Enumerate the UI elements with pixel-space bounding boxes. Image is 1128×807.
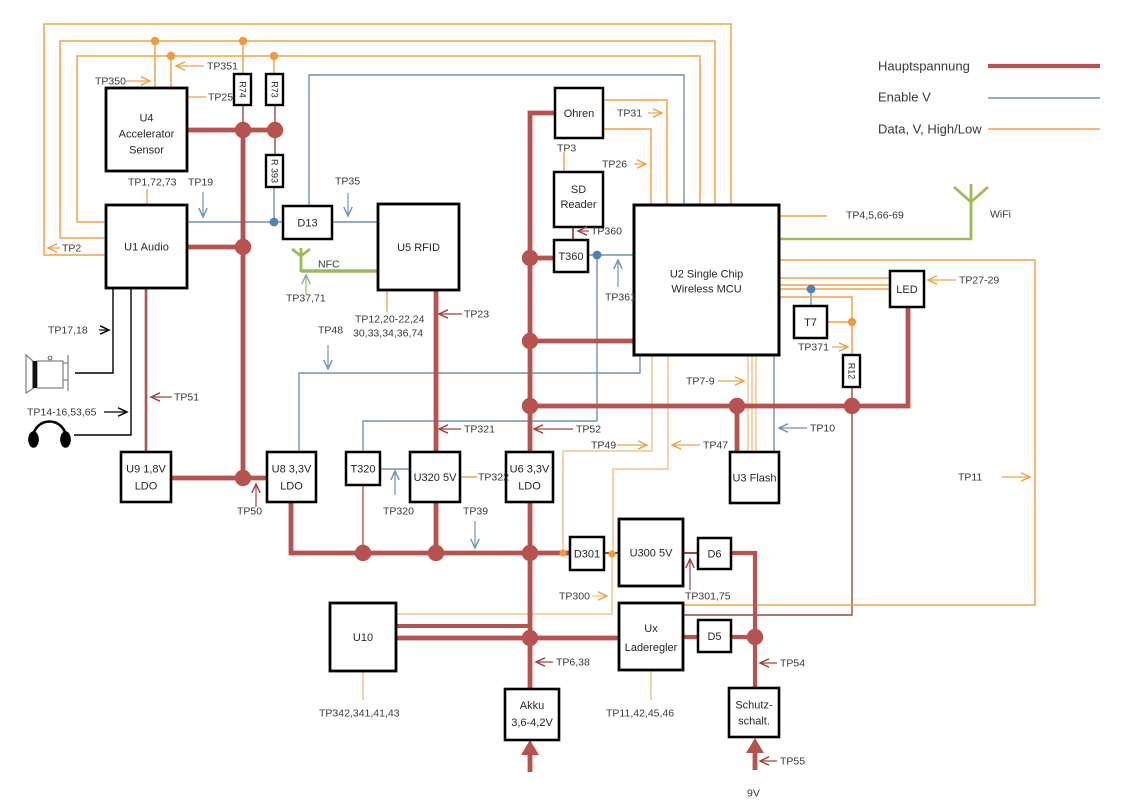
diode D6 <box>698 538 731 569</box>
svg-text:TP351: TP351 <box>207 61 238 73</box>
svg-text:U4: U4 <box>139 112 153 124</box>
svg-text:U5 RFID: U5 RFID <box>397 242 440 254</box>
svg-text:TP300: TP300 <box>559 591 590 603</box>
svg-text:Sensor: Sensor <box>129 144 164 156</box>
svg-text:TP321: TP321 <box>464 424 495 436</box>
svg-text:TP52: TP52 <box>576 424 601 436</box>
wire T360 power feed <box>530 256 554 261</box>
svg-text:TP3: TP3 <box>557 143 576 155</box>
regulator U320 5V <box>410 452 460 502</box>
IC U4 Accelerator Sensor <box>106 88 187 171</box>
svg-text:NFC: NFC <box>318 259 340 271</box>
svg-text:TP26: TP26 <box>602 159 627 171</box>
wire U5 bottom data stub <box>386 290 388 312</box>
svg-text:U2 Single Chip: U2 Single Chip <box>670 268 743 280</box>
wire Ohren to SD Reader TP3 stub <box>563 138 565 172</box>
wire U2 to U3 data 3 <box>755 355 757 452</box>
svg-text:30,33,34,36,74: 30,33,34,36,74 <box>353 328 423 340</box>
antenna NFC <box>292 248 310 272</box>
svg-text:U1 Audio: U1 Audio <box>124 241 169 253</box>
wire U2 to U3 data 2 <box>751 355 753 452</box>
svg-text:TP54: TP54 <box>780 658 805 670</box>
wire U2 to U3 data 1 (TP7-9) <box>747 355 749 452</box>
svg-text:TP342,341,41,43: TP342,341,41,43 <box>319 708 400 720</box>
wire D13 to U5 enable <box>332 221 378 223</box>
wire T320 to U320 enable <box>380 468 410 470</box>
svg-text:TP55: TP55 <box>780 756 805 768</box>
resistor R393 <box>266 155 283 187</box>
svg-text:Data, V, High/Low: Data, V, High/Low <box>878 122 982 137</box>
svg-text:TP47: TP47 <box>703 440 728 452</box>
diode D13 <box>283 206 332 239</box>
svg-text:TP360: TP360 <box>591 226 622 238</box>
svg-text:R74: R74 <box>237 81 247 98</box>
svg-text:TP371: TP371 <box>798 342 829 354</box>
svg-text:Akku: Akku <box>520 700 544 712</box>
wire U10 lower power line to Ux <box>396 636 619 641</box>
wire U10 to D301 node (TP300 net) <box>396 554 612 614</box>
wire TP1,72,73 stub to U1 top <box>146 189 148 205</box>
svg-text:D5: D5 <box>707 631 721 643</box>
svg-text:LDO: LDO <box>135 480 158 492</box>
wire D6 to D5 junction loop <box>731 553 755 637</box>
wire TP25 stub from U4 <box>187 96 206 98</box>
resistor R73 <box>266 74 283 105</box>
transistor T7 <box>794 306 827 338</box>
svg-text:TP320: TP320 <box>383 506 414 518</box>
wire U2 to LED data 2 <box>779 284 890 286</box>
svg-text:TP25: TP25 <box>208 92 233 104</box>
antenna WiFi <box>954 184 988 239</box>
svg-text:3,6-4,2V: 3,6-4,2V <box>511 717 553 729</box>
svg-text:T360: T360 <box>558 251 583 263</box>
wire R12 bottom to power dot <box>851 387 853 406</box>
wire U2 right TP4,5,66-69 stub <box>779 215 827 217</box>
wire orange loop B (TP351 net U1-U4-R74-U2) <box>60 41 715 238</box>
wire U2 to U8 enable <box>299 355 640 452</box>
svg-text:TP48: TP48 <box>318 325 343 337</box>
IC U10 <box>330 603 396 671</box>
wire U1 to D13 enable <box>187 221 283 223</box>
junction dots power (red) <box>235 122 251 138</box>
LED block <box>890 271 924 307</box>
svg-text:TP12,20-22,24: TP12,20-22,24 <box>355 314 425 326</box>
wire U2 bottom to D301 right (TP47 net) <box>613 355 668 554</box>
block SD Reader <box>554 172 603 227</box>
wire R393 bottom to enable node <box>273 187 275 222</box>
wire power dot to Ux Laderegler sense line <box>683 406 852 615</box>
svg-text:TP10: TP10 <box>810 423 835 435</box>
wire U4 power to junction (thick red) <box>187 128 278 133</box>
wire Ohren power feed and main vertical x530 <box>530 113 555 689</box>
svg-text:TP350: TP350 <box>95 76 126 88</box>
svg-text:U320 5V: U320 5V <box>414 472 457 484</box>
wire U9 to U8 power <box>171 476 267 481</box>
svg-text:TP50: TP50 <box>237 506 262 518</box>
svg-text:TP2: TP2 <box>62 243 81 255</box>
svg-text:LDO: LDO <box>280 480 303 492</box>
wire U9 feed from U1 (thin red) <box>145 288 148 452</box>
IC U5 RFID <box>378 204 459 290</box>
wire T360 node to T320 enable <box>363 255 597 452</box>
wire SD Reader to T360 (TP360 net) <box>572 227 574 240</box>
diode D5 <box>698 620 731 652</box>
junction dots enable (blue) <box>270 218 279 227</box>
svg-text:R12: R12 <box>846 363 856 380</box>
IC U3 Flash <box>730 452 779 503</box>
wire U1 power feed <box>187 245 243 250</box>
svg-text:SD: SD <box>571 184 586 196</box>
wire power vertical x243 U4-U1-U9 row <box>241 130 246 478</box>
svg-text:TP11: TP11 <box>958 472 982 484</box>
svg-text:Schutz-: Schutz- <box>735 699 773 711</box>
wire U3 Flash power feed <box>735 406 740 452</box>
regulator U8 3,3V LDO <box>267 452 316 502</box>
IC U2 Single Chip Wireless MCU <box>634 205 779 355</box>
svg-text:TP7-9: TP7-9 <box>686 376 715 388</box>
regulator U9 1,8V LDO <box>121 452 171 502</box>
svg-text:LED: LED <box>896 284 917 296</box>
wire U2 to LED data 1 <box>779 277 890 279</box>
svg-text:U8 3,3V: U8 3,3V <box>272 463 312 475</box>
headphones icon <box>28 422 71 448</box>
svg-text:R73: R73 <box>269 81 279 98</box>
svg-text:TP361: TP361 <box>605 292 636 304</box>
svg-text:U300 5V: U300 5V <box>630 547 673 559</box>
wire T320 bottom to bus (light red) <box>362 485 364 553</box>
svg-text:TP39: TP39 <box>463 506 488 518</box>
speaker icon <box>26 355 68 393</box>
wire LED node to T7 enable stub <box>810 289 812 306</box>
svg-text:TP322: TP322 <box>478 472 509 484</box>
svg-text:R 393: R 393 <box>269 159 279 183</box>
svg-text:TP19: TP19 <box>188 177 213 189</box>
wire battery arrow into Akku <box>528 751 533 772</box>
svg-text:LDO: LDO <box>518 480 541 492</box>
IC U1 Audio <box>106 205 187 288</box>
test point TP3 <box>556 140 576 152</box>
wire U8 bottom to power bus <box>291 502 570 553</box>
svg-text:D301: D301 <box>574 548 600 560</box>
svg-text:TP301,75: TP301,75 <box>685 591 731 603</box>
svg-text:schalt.: schalt. <box>738 715 770 727</box>
svg-text:9V: 9V <box>747 788 760 800</box>
wire U10 bottom stub <box>362 671 364 700</box>
regulator U6 3,3V LDO <box>506 452 553 502</box>
wire R74 top to loop B <box>242 41 244 74</box>
svg-text:TP49: TP49 <box>591 440 616 452</box>
svg-text:TP11,42,45,46: TP11,42,45,46 <box>606 708 674 720</box>
svg-text:Ux: Ux <box>644 623 658 635</box>
wire Ohren to U2 data upper <box>603 100 667 205</box>
svg-text:TP17,18: TP17,18 <box>48 325 88 337</box>
wire main power bus y406 with LED riser <box>530 307 908 406</box>
wire junction to Schutzschalt top <box>753 637 757 688</box>
regulator U300 5V <box>619 519 683 586</box>
wire Ux Laderegler to D5 <box>683 635 698 639</box>
wire U4 top stub from loop B <box>154 41 156 88</box>
svg-text:Wireless MCU: Wireless MCU <box>671 283 741 295</box>
battery Akku 3,6-4,2V <box>505 689 559 740</box>
svg-text:U9 1,8V: U9 1,8V <box>126 463 166 475</box>
svg-text:TP1,72,73: TP1,72,73 <box>128 177 177 189</box>
svg-text:T320: T320 <box>350 463 375 475</box>
svg-text:TP23: TP23 <box>464 309 489 321</box>
resistor R12 <box>843 355 860 387</box>
diode D301 <box>570 537 604 570</box>
wire U2 bottom to D301 left (TP49 net) <box>563 355 652 553</box>
svg-text:U6 3,3V: U6 3,3V <box>510 463 550 475</box>
svg-text:Ohren: Ohren <box>564 108 595 120</box>
wire D13 top to U2 enable <box>309 75 684 206</box>
svg-text:U10: U10 <box>353 632 373 644</box>
wire U320 TP322 stub <box>460 476 477 478</box>
wire NFC antenna to U5 <box>301 269 378 272</box>
svg-text:WiFi: WiFi <box>990 209 1011 221</box>
wire R74 bottom to power dot <box>242 105 244 130</box>
svg-text:Hauptspannung: Hauptspannung <box>878 59 970 74</box>
wire U4 top stub from loop C <box>170 56 172 88</box>
wire orange loop C (TP350 net U1-U4-R73-U2) <box>77 56 700 222</box>
svg-text:TP4,5,66-69: TP4,5,66-69 <box>846 210 904 222</box>
svg-text:T7: T7 <box>804 317 817 329</box>
block Schutzschaltung <box>729 688 779 737</box>
wire T7 to branch stub <box>827 321 852 323</box>
wire power dot to R393 top <box>274 130 276 155</box>
block Ohren <box>555 88 603 138</box>
svg-text:U3 Flash: U3 Flash <box>732 472 776 484</box>
wire R73 bottom to power dot <box>274 105 276 130</box>
IC Ux Laderegler <box>619 603 683 670</box>
wire D5 to junction <box>731 635 755 639</box>
wire U2 to WiFi antenna <box>779 203 971 239</box>
wire U2 right to right-edge loop down to Ux <box>683 260 1035 605</box>
svg-text:TP37,71: TP37,71 <box>286 293 326 305</box>
wire orange loop A (TP2 net U1-U2) <box>44 24 731 255</box>
svg-text:Enable V: Enable V <box>878 90 931 105</box>
junction dots D301 (orange) <box>559 549 566 556</box>
resistor R74 <box>234 74 251 105</box>
wire U300 to D6 link <box>683 552 698 554</box>
wire U1 to headphones <box>74 288 131 435</box>
wire R73 top to loop C <box>273 56 275 74</box>
svg-text:Accelerator: Accelerator <box>119 128 175 140</box>
wire 9V input arrow into Schutzschalt <box>753 749 758 770</box>
wire U1 to speaker <box>75 288 113 373</box>
wire Ohren to U2 data lower <box>603 129 651 205</box>
svg-text:TP35: TP35 <box>335 176 360 188</box>
junction dots data (orange) <box>151 37 159 45</box>
svg-text:TP51: TP51 <box>174 392 199 404</box>
wire U320 bottom to bus <box>434 502 439 553</box>
wire Ux bottom stub <box>650 670 652 700</box>
svg-text:TP27-29: TP27-29 <box>959 275 999 287</box>
wire U2 data to R12/T7 branch <box>779 297 852 355</box>
wire U5 to U320 power vertical <box>434 290 439 452</box>
wire T360 to U2 enable <box>588 254 634 256</box>
wire U2 power feed <box>530 339 634 344</box>
wire D301 to U300 link <box>604 552 619 554</box>
svg-text:TP31: TP31 <box>617 108 642 120</box>
wire U10 upper power line <box>396 624 530 628</box>
wire U2 to U3 Flash enable <box>773 355 775 452</box>
wire U2 to LED data 3 <box>779 288 890 290</box>
svg-text:D6: D6 <box>707 548 721 560</box>
transistor T360 <box>554 240 588 272</box>
transistor T320 <box>346 452 380 485</box>
svg-text:D13: D13 <box>297 217 317 229</box>
svg-text:TP6,38: TP6,38 <box>556 657 590 669</box>
svg-text:Reader: Reader <box>560 199 596 211</box>
svg-text:Laderegler: Laderegler <box>625 642 678 654</box>
svg-text:TP14-16,53,65: TP14-16,53,65 <box>27 407 97 419</box>
